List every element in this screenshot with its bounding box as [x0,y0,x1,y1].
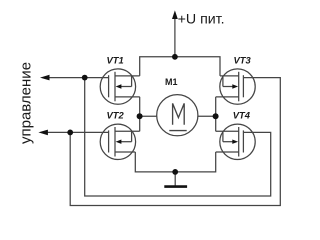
ground [164,185,187,188]
control arrow lower [38,130,48,136]
wire: lower control line (gates VT2/VT3) [47,131,109,133]
transistor VT2 [100,124,140,159]
motor M1 [157,95,198,136]
power arrow +U [172,10,178,19]
wire: VT1 source to motor-left to VT2 drain [139,97,141,131]
svg-text:M1: M1 [165,77,178,87]
svg-text:управление: управление [18,62,35,144]
ground stem [174,172,176,186]
node: +U rail junction [172,54,178,60]
svg-text:+U пит.: +U пит. [178,12,225,28]
wire: inner loop upper-control to VT4 gate [85,78,271,196]
wire: top rail [140,57,220,76]
svg-text:VT2: VT2 [107,109,125,120]
node: lower control junction [67,130,73,136]
svg-text:VT3: VT3 [234,54,252,65]
node: motor left junction [137,113,143,119]
node: motor right junction [213,113,219,119]
svg-text:VT1: VT1 [107,54,124,65]
wire: motor left lead [140,115,157,117]
transistor VT3 [216,69,256,104]
node: upper control junction [82,75,88,81]
svg-text:VT4: VT4 [233,110,251,121]
wire: VT3 source to motor-right to VT4 drain [215,97,217,131]
wire: motor right lead [198,115,216,117]
transistor VT4 [216,124,256,159]
control arrow upper [40,75,50,81]
transistor VT1 [100,69,140,104]
node: ground junction [172,169,178,175]
wire: outer loop lower-control to VT3 gate [70,78,280,206]
wire: upper control line (gates VT1/VT4) [49,77,109,79]
wire: +U supply lead [174,18,176,57]
wire: VT2 source to bottom rail [135,152,215,172]
